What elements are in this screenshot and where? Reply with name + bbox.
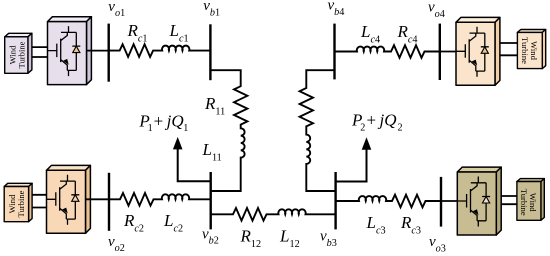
svg-text:1: 1: [148, 123, 153, 134]
svg-text:Lc4: Lc4: [360, 22, 380, 45]
svg-text:Rc3: Rc3: [400, 213, 421, 236]
svg-text:vb4: vb4: [328, 0, 345, 18]
svg-text:vo2: vo2: [108, 234, 125, 254]
svg-text:vo1: vo1: [108, 0, 125, 19]
svg-text:jQ: jQ: [165, 111, 184, 130]
svg-text:+: +: [154, 111, 164, 130]
svg-text:1: 1: [183, 123, 188, 134]
svg-text:2: 2: [360, 122, 365, 133]
svg-text:jQ: jQ: [378, 111, 397, 130]
svg-text:R12: R12: [240, 227, 262, 250]
svg-text:Lc3: Lc3: [366, 213, 386, 236]
svg-text:vo4: vo4: [428, 0, 445, 20]
svg-text:R11: R11: [204, 94, 225, 117]
svg-text:Rc2: Rc2: [123, 211, 144, 234]
svg-text:Rc4: Rc4: [397, 22, 418, 45]
svg-text:L11: L11: [202, 140, 222, 163]
svg-text:Rc1: Rc1: [127, 21, 148, 44]
svg-text:L12: L12: [279, 227, 300, 250]
svg-text:vb1: vb1: [203, 0, 220, 19]
svg-text:2: 2: [398, 122, 403, 133]
svg-text:+: +: [367, 111, 377, 130]
svg-text:Lc1: Lc1: [169, 21, 189, 44]
svg-text:vb3: vb3: [320, 229, 337, 249]
svg-text:vo3: vo3: [429, 234, 446, 254]
svg-text:Lc2: Lc2: [163, 211, 183, 234]
